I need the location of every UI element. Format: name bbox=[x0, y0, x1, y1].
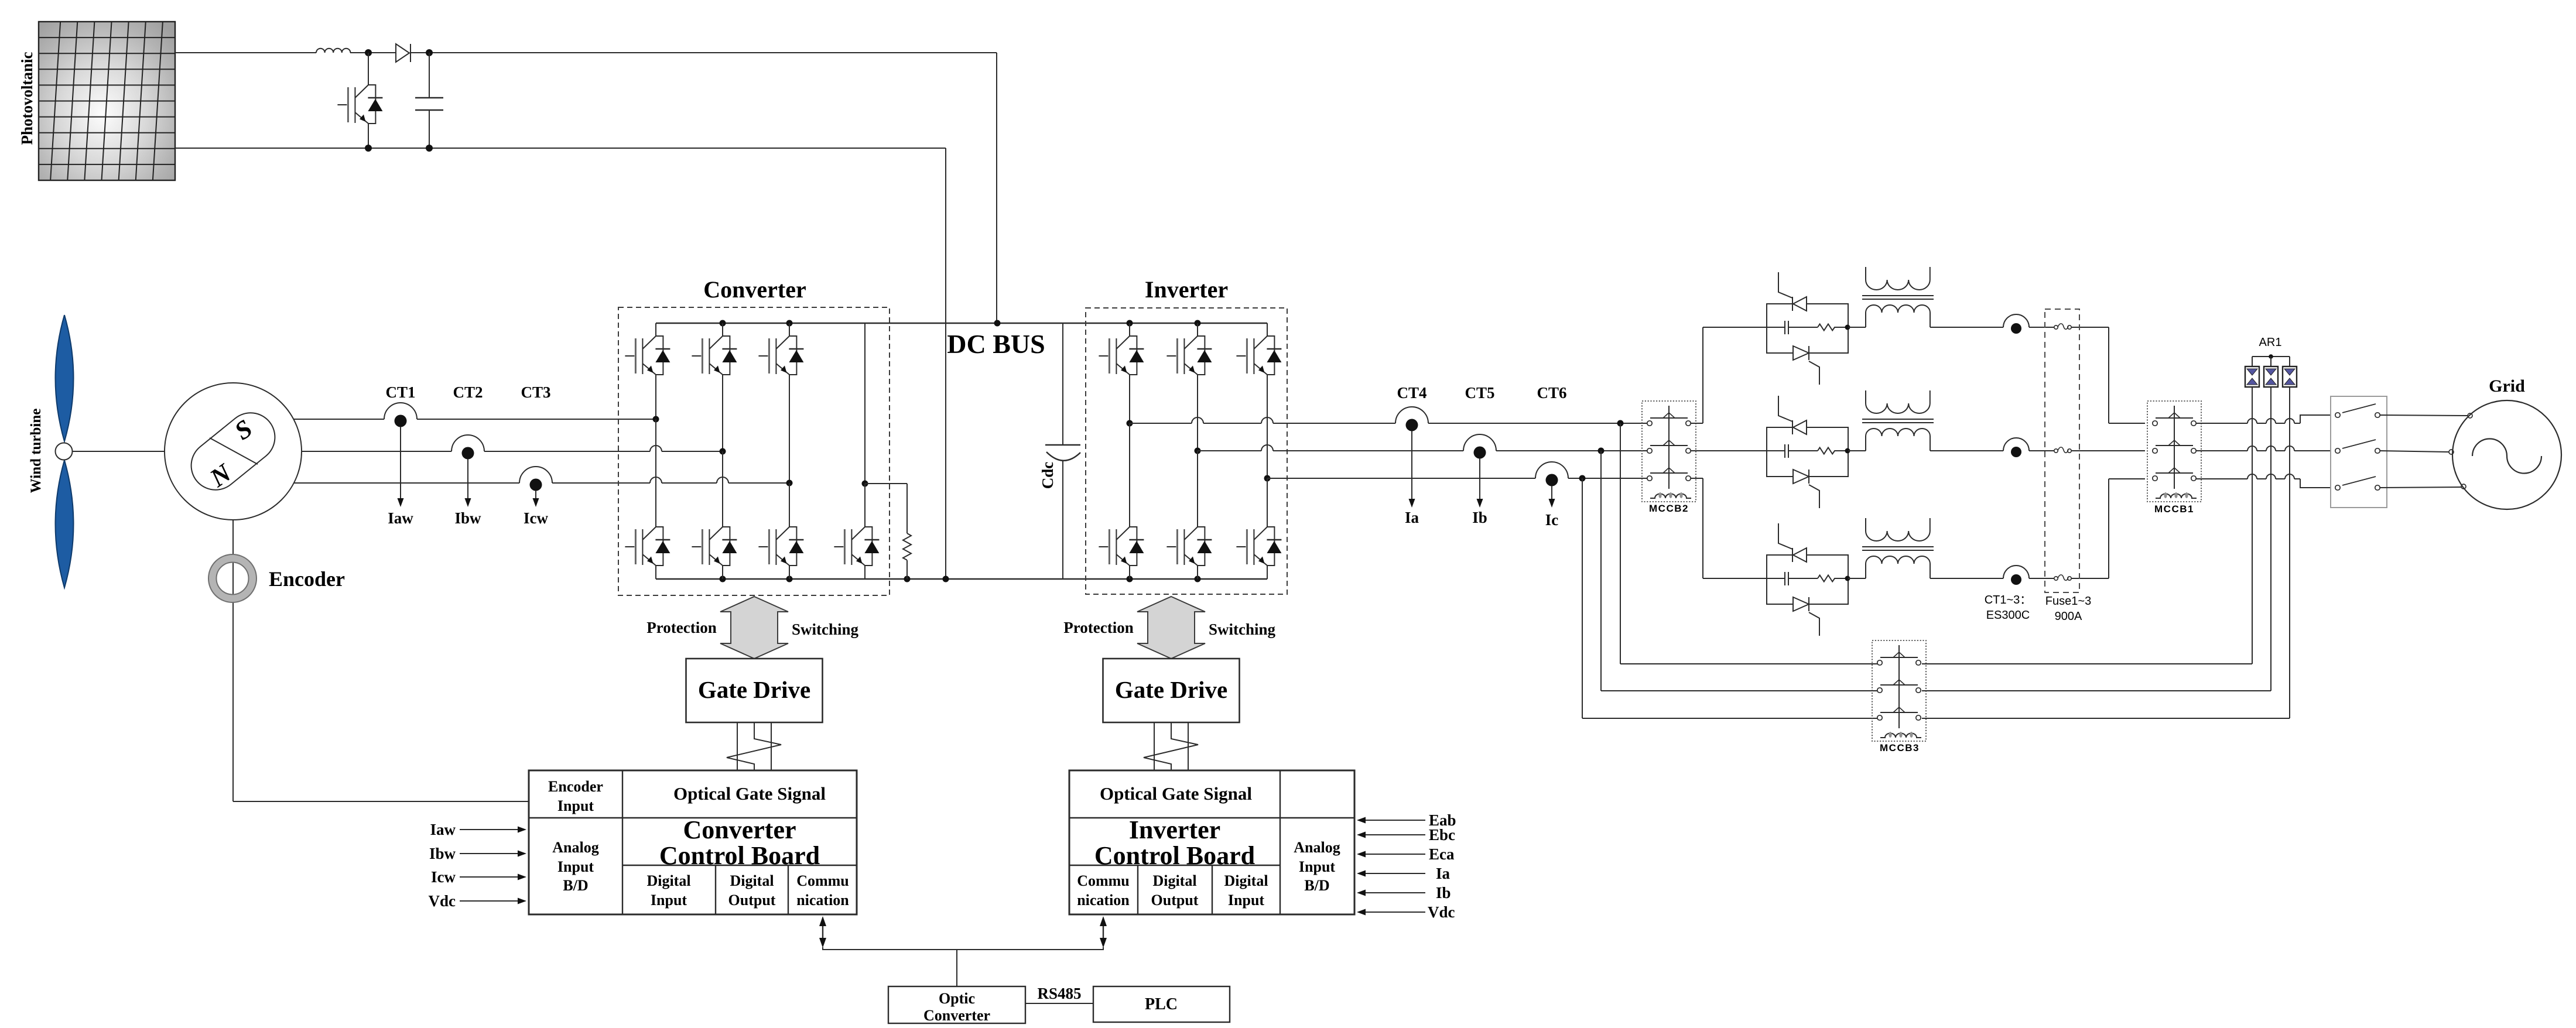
svg-text:DC BUS: DC BUS bbox=[947, 329, 1045, 359]
svg-text:Icw: Icw bbox=[431, 868, 456, 886]
svg-text:Ibw: Ibw bbox=[454, 509, 481, 527]
svg-text:Ib: Ib bbox=[1436, 884, 1451, 902]
svg-text:Commu: Commu bbox=[796, 872, 849, 889]
svg-text:Analog: Analog bbox=[552, 839, 598, 856]
svg-text:CT1~3：: CT1~3： bbox=[1985, 594, 2032, 606]
svg-text:CT3: CT3 bbox=[521, 383, 550, 401]
svg-text:Icw: Icw bbox=[524, 509, 548, 527]
svg-text:Ia: Ia bbox=[1405, 509, 1419, 526]
svg-text:CT1: CT1 bbox=[385, 383, 415, 401]
svg-text:PLC: PLC bbox=[1145, 995, 1178, 1013]
svg-text:Optic: Optic bbox=[939, 990, 975, 1007]
svg-text:Control Board: Control Board bbox=[1094, 841, 1255, 870]
svg-text:MCCB2: MCCB2 bbox=[1649, 503, 1689, 514]
svg-text:CT4: CT4 bbox=[1397, 384, 1426, 402]
svg-text:Inverter: Inverter bbox=[1129, 815, 1220, 844]
svg-text:Analog: Analog bbox=[1294, 839, 1340, 856]
svg-text:AR1: AR1 bbox=[2259, 336, 2282, 349]
svg-text:nication: nication bbox=[796, 892, 849, 909]
svg-text:B/D: B/D bbox=[563, 877, 588, 894]
svg-text:900A: 900A bbox=[2055, 610, 2082, 623]
svg-text:Eca: Eca bbox=[1429, 845, 1455, 863]
svg-text:nication: nication bbox=[1077, 892, 1130, 909]
svg-text:Grid: Grid bbox=[2489, 376, 2525, 396]
svg-text:CT6: CT6 bbox=[1537, 384, 1566, 402]
svg-text:RS485: RS485 bbox=[1037, 985, 1081, 1002]
svg-text:Ib: Ib bbox=[1472, 509, 1487, 526]
svg-text:MCCB3: MCCB3 bbox=[1880, 742, 1920, 753]
svg-text:ES300C: ES300C bbox=[1986, 609, 2030, 622]
svg-text:Encoder: Encoder bbox=[269, 567, 345, 591]
svg-text:Converter: Converter bbox=[923, 1007, 990, 1024]
svg-text:Inverter: Inverter bbox=[1145, 276, 1228, 303]
svg-text:Control Board: Control Board bbox=[659, 841, 820, 870]
svg-text:Commu: Commu bbox=[1077, 872, 1130, 889]
svg-text:Converter: Converter bbox=[683, 815, 796, 844]
svg-text:Digital: Digital bbox=[1224, 872, 1268, 889]
svg-text:Digital: Digital bbox=[730, 872, 774, 889]
svg-text:Input: Input bbox=[651, 892, 687, 909]
svg-text:Cdc: Cdc bbox=[1039, 462, 1056, 489]
svg-text:Ibw: Ibw bbox=[429, 845, 456, 862]
svg-text:Encoder: Encoder bbox=[548, 778, 603, 795]
svg-text:CT2: CT2 bbox=[453, 383, 483, 401]
svg-text:Converter: Converter bbox=[703, 276, 806, 303]
svg-text:Ic: Ic bbox=[1545, 511, 1559, 529]
svg-text:Digital: Digital bbox=[1152, 872, 1196, 889]
svg-text:CT5: CT5 bbox=[1465, 384, 1494, 402]
svg-text:Ia: Ia bbox=[1436, 865, 1451, 882]
svg-text:Optical Gate Signal: Optical Gate Signal bbox=[1100, 783, 1252, 804]
svg-text:Digital: Digital bbox=[646, 872, 690, 889]
svg-text:Photovoltanic: Photovoltanic bbox=[18, 52, 36, 145]
svg-text:Wind turbine: Wind turbine bbox=[28, 409, 44, 494]
svg-text:Output: Output bbox=[1151, 892, 1199, 909]
svg-text:Optical Gate Signal: Optical Gate Signal bbox=[673, 783, 826, 804]
svg-text:Iaw: Iaw bbox=[388, 509, 413, 527]
svg-text:Output: Output bbox=[728, 892, 776, 909]
svg-text:Fuse1~3: Fuse1~3 bbox=[2045, 595, 2091, 608]
svg-text:Input: Input bbox=[557, 797, 594, 814]
svg-text:Ebc: Ebc bbox=[1429, 826, 1455, 844]
svg-text:Vdc: Vdc bbox=[429, 892, 456, 910]
svg-text:Iaw: Iaw bbox=[430, 821, 456, 838]
svg-text:MCCB1: MCCB1 bbox=[2154, 503, 2194, 515]
svg-text:Vdc: Vdc bbox=[1428, 903, 1455, 921]
svg-text:Input: Input bbox=[1228, 892, 1264, 909]
svg-text:Input: Input bbox=[1299, 858, 1335, 875]
svg-text:B/D: B/D bbox=[1304, 877, 1329, 894]
svg-text:Input: Input bbox=[557, 858, 594, 875]
